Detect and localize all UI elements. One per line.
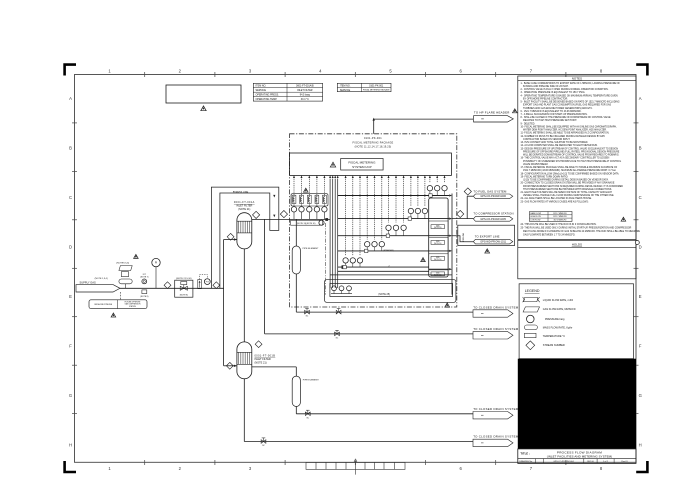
svg-text:0101-PK-001: 0101-PK-001 — [364, 137, 382, 140]
warning triangle UCP — [330, 162, 335, 167]
blank revision box — [166, 85, 241, 103]
svg-text:(NOTES 5,6): (NOTES 5,6) — [116, 263, 129, 265]
svg-text:B: B — [69, 146, 72, 151]
svg-text:(NOTE 13)(NOTE 16): (NOTE 13)(NOTE 16) — [297, 223, 316, 225]
warning triangle notes56 — [134, 254, 139, 258]
svg-text:8- SHALL BE CLOSED IF THE PRE: 8- SHALL BE CLOSED IF THE PRESSURE OF DO… — [521, 116, 612, 119]
svg-text:PIPE ELEMENT: PIPE ELEMENT — [303, 248, 320, 250]
drain valve D3 — [305, 410, 310, 419]
svg-text:94.5 barg: 94.5 barg — [300, 94, 311, 97]
svg-text:PI: PI — [155, 262, 158, 265]
stream diamond main line — [213, 282, 220, 289]
svg-text:(NOTE 1,3,4): (NOTE 1,3,4) — [95, 278, 108, 280]
svg-text:CONTRACTOR BASED ON VENDOR INP: CONTRACTOR BASED ON VENDOR INPUT. — [521, 138, 571, 141]
notes text — [521, 82, 624, 204]
svg-text:WATER DEW POINT ANALYZER, HC D: WATER DEW POINT ANALYZER, HC DEW POINT A… — [521, 129, 608, 132]
svg-text:ITEM NO.: ITEM NO. — [256, 85, 267, 88]
stream diamond 4 — [280, 211, 287, 218]
package label — [353, 137, 394, 149]
notes 5,6 label — [116, 263, 129, 265]
notes flow table — [530, 212, 573, 222]
title block — [518, 449, 636, 464]
svg-text:TEMPERATURE °C: TEMPERATURE °C — [543, 335, 565, 338]
svg-text:15- DESIGN PRESSURE OF UPSTREA: 15- DESIGN PRESSURE OF UPSTREAM OF CONTR… — [521, 147, 619, 150]
svg-text:(NOTE 21): (NOTE 21) — [255, 361, 267, 364]
svg-text:MASS FLOW RATE, Kg/hr: MASS FLOW RATE, Kg/hr — [543, 326, 573, 329]
vessel B label — [255, 354, 276, 364]
scale bar — [306, 459, 405, 475]
svg-text:HIGH FLOW: HIGH FLOW — [531, 216, 541, 218]
svg-text:TO HP FLARE HEADER: TO HP FLARE HEADER — [474, 111, 510, 115]
offshore pipeline box — [89, 300, 147, 309]
svg-text:HOLDS: HOLDS — [572, 243, 582, 247]
svg-text:20- CONNECTION TO CLOSED DRAIN: 20- CONNECTION TO CLOSED DRAIN SYSTEM WI… — [521, 182, 615, 185]
svg-text:17- FISCAL METERING PACKAGE SH: 17- FISCAL METERING PACKAGE SHALL BE ABL… — [521, 166, 618, 169]
svg-text:(NOTE 24): (NOTE 24) — [434, 243, 442, 245]
svg-text:BY OFFSHORE PIPELINE CONTRACTO: BY OFFSHORE PIPELINE CONTRACTOR. — [521, 97, 569, 100]
svg-text:12- NUMBER OF RUNS TO BE FINAL: 12- NUMBER OF RUNS TO BE FINALIZED DURIN… — [521, 135, 606, 138]
svg-text:GPS-CO-PR-DW-1004: GPS-CO-PR-DW-1004 — [553, 461, 574, 463]
wire pipe element B drain riser — [295, 407, 297, 414]
svg-text:LOW FLOW: LOW FLOW — [531, 220, 541, 222]
meter run lines — [330, 194, 452, 275]
svg-text:LEGEND: LEGEND — [525, 289, 540, 293]
vessel B inlet wire — [224, 365, 237, 367]
svg-text:G: G — [69, 393, 72, 398]
redaction black box — [518, 359, 636, 449]
svg-text:G: G — [639, 393, 642, 398]
svg-text:STREAM NUMBER: STREAM NUMBER — [543, 344, 565, 347]
svg-text:REACHES TO HIGH HIGH PRESSURE: REACHES TO HIGH HIGH PRESSURE SET POINT. — [521, 119, 578, 122]
svg-text:GPS-CO-PR-DW-1005: GPS-CO-PR-DW-1005 — [480, 218, 506, 221]
svg-text:OPERATING TEMP.: OPERATING TEMP. — [256, 98, 278, 101]
svg-text:10- FISCAL METERING SHALL BE E: 10- FISCAL METERING SHALL BE EQUIPPED WI… — [521, 125, 618, 128]
skid dashed boundary — [325, 223, 327, 295]
wire drain D2 — [265, 333, 473, 335]
stream data callout — [119, 266, 132, 289]
warning triangle run5 — [421, 258, 426, 262]
warning triangle under revision box — [201, 106, 206, 111]
pipe element B — [292, 376, 319, 406]
meter run 3 instruments — [386, 225, 407, 237]
svg-text:GPS-WD-PR-DW-1011: GPS-WD-PR-DW-1011 — [480, 241, 506, 244]
svg-text:Rev.01: Rev.01 — [621, 461, 628, 463]
meter run 1 instruments — [427, 186, 447, 198]
wire to offshore box — [120, 292, 122, 300]
legend box — [519, 284, 633, 359]
svg-text:TO FUEL GAS SYSTEM: TO FUEL GAS SYSTEM — [473, 189, 507, 193]
svg-text:H: H — [69, 443, 72, 448]
svg-text:30.4 °C: 30.4 °C — [301, 98, 309, 101]
to closed drain flag D3 — [473, 407, 519, 419]
svg-text:9- DELETED.: 9- DELETED. — [521, 123, 536, 125]
svg-text:25- THE RUN WILL BE USED ONLY: 25- THE RUN WILL BE USED ONLY DURING INI… — [521, 227, 632, 230]
warning triangle notes table — [621, 217, 626, 221]
svg-text:LIQUID FLOW RATE, m3/h: LIQUID FLOW RATE, m3/h — [543, 299, 574, 302]
title block bottom row — [519, 459, 628, 464]
svg-text:PIPELINE: PIPELINE — [463, 232, 465, 241]
svg-text:TO CLOSED DRAIN SYSTEM: TO CLOSED DRAIN SYSTEM — [473, 305, 519, 309]
svg-text:DRAWING No.: DRAWING No. — [519, 460, 533, 463]
notes 24,25 text — [521, 223, 641, 237]
wire bypass line — [211, 187, 278, 288]
svg-text:TITLE :: TITLE : — [520, 452, 530, 456]
svg-text:14- A FLOW COMPUTER SHALL BE D: 14- A FLOW COMPUTER SHALL BE DEDICATED T… — [521, 144, 599, 147]
svg-text:11- FISCAL METERING SHALL BE A: 11- FISCAL METERING SHALL BE ABLE TO BE … — [521, 132, 610, 135]
svg-text:PIPE ELEMENT: PIPE ELEMENT — [303, 379, 320, 381]
svg-text:BYPASS LINE: BYPASS LINE — [233, 191, 249, 194]
svg-text:PRESSURE OF OFFSHORE PIPELINE: PRESSURE OF OFFSHORE PIPELINE (FULL RATE… — [521, 150, 620, 153]
svg-text:1 of 1: 1 of 1 — [603, 461, 609, 463]
svg-text:18- CONFIGURATION ALLOW (3Wx1x: 18- CONFIGURATION ALLOW (3Wx1x2+1/2) TO … — [521, 172, 620, 175]
wire drain D3 — [296, 413, 473, 415]
vessel A label — [234, 201, 255, 211]
svg-text:367.5 MMSCFD: 367.5 MMSCFD — [554, 220, 568, 222]
stream diamond 3 — [253, 211, 260, 218]
svg-text:23- GAS FLOW RATES AT VARIOUS: 23- GAS FLOW RATES AT VARIOUS CASES ARE … — [521, 200, 589, 203]
svg-text:H: H — [639, 443, 642, 448]
package boundary 0101-PK-001 — [290, 134, 457, 307]
start-up run box note 25 — [325, 280, 456, 303]
outlet manifold — [429, 198, 448, 277]
wire pipe element A riser — [295, 219, 297, 246]
wire fuel gas exit — [467, 196, 473, 218]
svg-text:1521.7 MMSCFD (43.06 MMSCMD).: 1521.7 MMSCFD (43.06 MMSCMD). MAXIMUM AL… — [521, 169, 617, 172]
legend pressure symbol — [527, 315, 566, 323]
fail open element — [198, 280, 202, 289]
wire vessel B bottom drain riser — [243, 379, 245, 442]
svg-text:TO CLOSED DRAIN SYSTEM: TO CLOSED DRAIN SYSTEM — [473, 435, 519, 439]
to closed drain flag D4 — [473, 435, 519, 447]
svg-text:3- OPERATING PRESSURE IS EQUI: 3- OPERATING PRESSURE IS EQUIVALENT TO 1… — [521, 91, 586, 94]
svg-text:FISCAL METERING: FISCAL METERING — [348, 161, 376, 165]
legend stream number symbol — [526, 341, 565, 350]
svg-text:4- OPERATING TEMPERATURE IS B: 4- OPERATING TEMPERATURE IS BASED ON MAX… — [521, 94, 619, 97]
to closed drain flag D2 — [473, 327, 519, 339]
svg-text:(INLET FACILITIES AND METERING: (INLET FACILITIES AND METERING SYSTEM) — [547, 455, 612, 459]
grid reference ticks and labels — [69, 68, 642, 471]
svg-text:GAS FLOW RATE, MMSCFD: GAS FLOW RATE, MMSCFD — [543, 308, 576, 311]
svg-text:(NOTE 21): (NOTE 21) — [238, 208, 250, 211]
svg-text:BASE FLOW: BASE FLOW — [531, 212, 542, 215]
svg-text:POSSIBILITY OF UNDESIRED SHUTD: POSSIBILITY OF UNDESIRED SHUTDOWNS DUE T… — [521, 160, 622, 163]
svg-text:INLET FILTER: INLET FILTER — [297, 89, 313, 92]
holds box — [518, 240, 636, 278]
svg-text:0001-FT-001A/B: 0001-FT-001A/B — [296, 85, 314, 88]
drain valve D1b — [336, 309, 341, 314]
svg-text:E: E — [639, 294, 642, 299]
svg-text:6- 1521.7 MMSCFD IS EQUIVALEN: 6- 1521.7 MMSCFD IS EQUIVALENT TO 43.06 … — [521, 110, 582, 113]
svg-text:(NOTE 24): (NOTE 24) — [434, 227, 442, 229]
note 1,3,4 label — [95, 278, 108, 280]
svg-text:VALVE DOWNSTREAM.: VALVE DOWNSTREAM. — [521, 163, 549, 166]
svg-text:WILL BE DERATED DOWNSTREAM OF: WILL BE DERATED DOWNSTREAM OF CONTROL VA… — [521, 154, 620, 157]
svg-text:16- THE CONTROL VALVE MAY ACT: 16- THE CONTROL VALVE MAY ACT AS A SECON… — [521, 157, 610, 160]
border frame — [75, 75, 637, 463]
svg-text:TO CLOSED DRAIN SYSTEM: TO CLOSED DRAIN SYSTEM — [473, 327, 519, 331]
svg-text:0101-PK-001: 0101-PK-001 — [369, 85, 384, 88]
meter run 5 instruments — [343, 258, 363, 269]
warning triangle package bottom — [445, 303, 450, 307]
inlet header pipes — [329, 175, 339, 288]
svg-text:C: C — [69, 195, 72, 200]
wire drain riser D2 — [264, 219, 266, 334]
stream diamond before control valve — [164, 282, 171, 289]
skid note boxes — [431, 225, 445, 277]
svg-text:2- CONTROL VALVE IS FULLY OPE: 2- CONTROL VALVE IS FULLY OPEN DURING NO… — [521, 88, 609, 91]
corner crop marks — [65, 65, 648, 472]
svg-text:TURBINES AND GAS ENGINE POWER: TURBINES AND GAS ENGINE POWER GENERATORS… — [521, 107, 594, 110]
svg-text:21- EACH INLET FILTERS WILL BE: 21- EACH INLET FILTERS WILL BE SIZED FOR… — [521, 191, 613, 194]
svg-text:(1/10) TO BE CONFIRMED DURING: (1/10) TO BE CONFIRMED DURING DETAIL DES… — [521, 179, 610, 182]
legend mass flow symbol — [524, 325, 572, 330]
wire pipe element A drain riser — [295, 274, 297, 312]
svg-text:E: E — [69, 294, 72, 299]
svg-text:(NOTE 24): (NOTE 24) — [434, 274, 442, 276]
svg-text:OPERATING PRESS.: OPERATING PRESS. — [256, 94, 280, 97]
wire filter outlet header — [252, 218, 330, 221]
drain valve D4 — [261, 438, 266, 447]
svg-text:5- INLET FACILITY SHALL BE DE: 5- INLET FACILITY SHALL BE DESIGNED BASE… — [521, 101, 620, 104]
to closed drain flag D1 — [473, 305, 519, 317]
svg-text:GPS-CO-PR-DW-1006: GPS-CO-PR-DW-1006 — [480, 195, 506, 198]
svg-text:SUPPLY GAS: SUPPLY GAS — [80, 281, 96, 285]
svg-text:(NOTE 7): (NOTE 7) — [140, 277, 148, 279]
svg-text:D: D — [69, 245, 72, 250]
analyzer group box — [291, 194, 328, 206]
warning triangle flare — [513, 109, 518, 113]
standby label — [383, 249, 394, 252]
flow element FIT — [140, 274, 148, 298]
svg-text:SERVICE: SERVICE — [256, 89, 267, 92]
wire supply main line — [120, 287, 224, 289]
svg-text:SYSTEM UCP: SYSTEM UCP — [352, 165, 372, 169]
wire drain D1 — [296, 311, 473, 313]
svg-text:CAT. 06: CAT. 06 — [587, 460, 595, 463]
svg-text:(STANDBY): (STANDBY) — [383, 249, 394, 252]
svg-text:1521.7 MMSCFD: 1521.7 MMSCFD — [553, 213, 568, 215]
svg-text:FISCAL METERING PACKAGE: FISCAL METERING PACKAGE — [363, 89, 390, 92]
outlet header — [451, 194, 453, 295]
svg-text:22- ALL ANALYSERS SHALL BE LOC: 22- ALL ANALYSERS SHALL BE LOCATED IN AN… — [521, 197, 593, 200]
instrument signal lines — [293, 175, 446, 255]
pipe element A — [292, 246, 319, 274]
inlet filter data table — [253, 83, 322, 101]
instrument PIT — [200, 275, 211, 285]
svg-text:SERVICE: SERVICE — [340, 89, 351, 92]
meter run 2 instruments — [408, 208, 427, 220]
svg-text:19- FISCAL METERING TURN DOWN: 19- FISCAL METERING TURN DOWN RATIO: — [521, 175, 569, 178]
wire compressor exit — [452, 218, 473, 220]
UCP box — [290, 153, 452, 175]
svg-text:1- BASE CASE CORRESPONDS TO E: 1- BASE CASE CORRESPONDS TO EXPORT RATE … — [521, 82, 621, 85]
drain valve D2 — [335, 330, 340, 339]
warning triangle export — [485, 249, 490, 253]
svg-text:13- H2S CONTENT AND TOTAL SULP: 13- H2S CONTENT AND TOTAL SULPHUR TO BE … — [521, 141, 589, 144]
legend liquid flow symbol — [523, 297, 574, 302]
vessel A inlet wire — [224, 238, 237, 240]
note 13/16 box — [291, 220, 325, 225]
svg-text:THAT PRESSURIZED SECTIONS BE P: THAT PRESSURIZED SECTIONS BE PROVIDED WI… — [521, 188, 613, 191]
wire relief line to flare — [373, 118, 474, 134]
metering package data table — [337, 83, 391, 92]
svg-text:C: C — [639, 195, 642, 200]
legend gas flow symbol — [523, 307, 576, 312]
bypass label — [233, 191, 249, 194]
svg-text:(NOTE 8): (NOTE 8) — [140, 296, 148, 298]
svg-text:NOTES: NOTES — [572, 77, 582, 81]
svg-text:(NOTE 8): (NOTE 8) — [180, 295, 188, 297]
svg-text:A: A — [639, 96, 642, 101]
svg-text:ITEM NO.: ITEM NO. — [340, 85, 351, 88]
svg-text:(NOTE 11,12,14,17,18,19,20): (NOTE 11,12,14,17,18,19,20) — [355, 146, 392, 149]
run number label — [388, 265, 390, 267]
instrument PI — [152, 258, 160, 288]
svg-text:F: F — [69, 344, 72, 349]
svg-text:(NOTE 25): (NOTE 25) — [378, 293, 390, 296]
stream diamond vessel B top — [255, 341, 262, 348]
wire vessel A bottom to vessel B top — [243, 249, 245, 342]
to fuel gas system flag — [473, 189, 512, 198]
svg-text:B: B — [639, 146, 642, 151]
warning triangle analyzers — [304, 188, 309, 192]
svg-text:TO EXPORT LINE: TO EXPORT LINE — [475, 235, 500, 239]
svg-text:24- THIS ROUTE WILL BE USED IF: 24- THIS ROUTE WILL BE USED IF THE RUN I… — [521, 223, 597, 226]
vessel 0001-FT-001B inlet filter — [237, 342, 252, 379]
svg-text:FISCAL METERING PACKAGE: FISCAL METERING PACKAGE — [353, 141, 394, 144]
revision bubble — [635, 241, 639, 245]
start-up run instruments — [332, 286, 352, 294]
notes panel — [518, 76, 636, 240]
stream diamond compressor — [457, 210, 464, 217]
meter run 4 instruments — [365, 242, 385, 253]
supply gas flag — [76, 281, 120, 292]
wire drain D4 — [244, 441, 473, 443]
stream diamond vessel B inlet — [226, 362, 233, 369]
to HP flare header flag — [474, 111, 514, 122]
export line box — [452, 225, 515, 245]
vessel 0001-FT-001A inlet filter — [237, 213, 252, 249]
svg-text:TO COMPRESSOR STATION: TO COMPRESSOR STATION — [473, 212, 513, 216]
warning triangle offshore — [111, 313, 116, 317]
svg-text:EXPORT GAS AND PLANT GAS CONSU: EXPORT GAS AND PLANT GAS CONSUMPTION (FU… — [521, 104, 612, 107]
analyzer instruments — [291, 207, 327, 220]
svg-text:7- A SMALL SUCCESSION FOR STA: 7- A SMALL SUCCESSION FOR START-UP PRESS… — [521, 113, 588, 116]
svg-text:GAS FLOWRATE BETWEEN 1.7 TO 24: GAS FLOWRATE BETWEEN 1.7 TO 24 MMSCFD. — [521, 233, 576, 236]
svg-text:1521.7 MMSCFD: 1521.7 MMSCFD — [553, 216, 568, 218]
svg-text:PRESSURE barg: PRESSURE barg — [545, 318, 565, 321]
legend temperature symbol — [524, 333, 565, 338]
drain valve D1 — [305, 309, 310, 318]
UCP label box — [341, 159, 383, 171]
svg-text:D: D — [639, 245, 642, 250]
svg-text:A: A — [69, 96, 72, 101]
svg-text:F: F — [639, 344, 642, 349]
to compressor station flag — [473, 212, 513, 222]
stream diamond fuel gas — [464, 188, 471, 195]
svg-text:FUTURE OFFSHORE: FUTURE OFFSHORE — [125, 302, 141, 304]
svg-text:TO CLOSED DRAIN SYSTEM: TO CLOSED DRAIN SYSTEM — [473, 407, 519, 411]
control valve station — [175, 278, 193, 297]
svg-text:(NOTE 24): (NOTE 24) — [434, 259, 442, 261]
svg-text:RECYCLING MODE IF FLOWRATE OF: RECYCLING MODE IF FLOWRATE OF GAS IS BEL… — [521, 230, 641, 233]
svg-text:(NOTE 2,15,16): (NOTE 2,15,16) — [176, 278, 192, 280]
svg-text:60 BARG AND PIPELINE SIZE OF 2: 60 BARG AND PIPELINE SIZE OF 26 INCH. — [521, 85, 570, 88]
wire vessel inlet riser — [223, 240, 225, 366]
stream diamond vessel A inlet — [227, 233, 234, 240]
svg-text:FROM PRESSURIZED SECTIONS IS R: FROM PRESSURIZED SECTIONS IS REQUIRED DU… — [521, 185, 624, 188]
svg-text:VESSEL SHALL HANDLE FULL FLOW: VESSEL SHALL HANDLE FULL FLOW DURING MAI… — [521, 194, 615, 197]
svg-text:OFFSHORE PIPELINE: OFFSHORE PIPELINE — [94, 304, 113, 306]
wire vessel B outlet — [252, 367, 296, 376]
